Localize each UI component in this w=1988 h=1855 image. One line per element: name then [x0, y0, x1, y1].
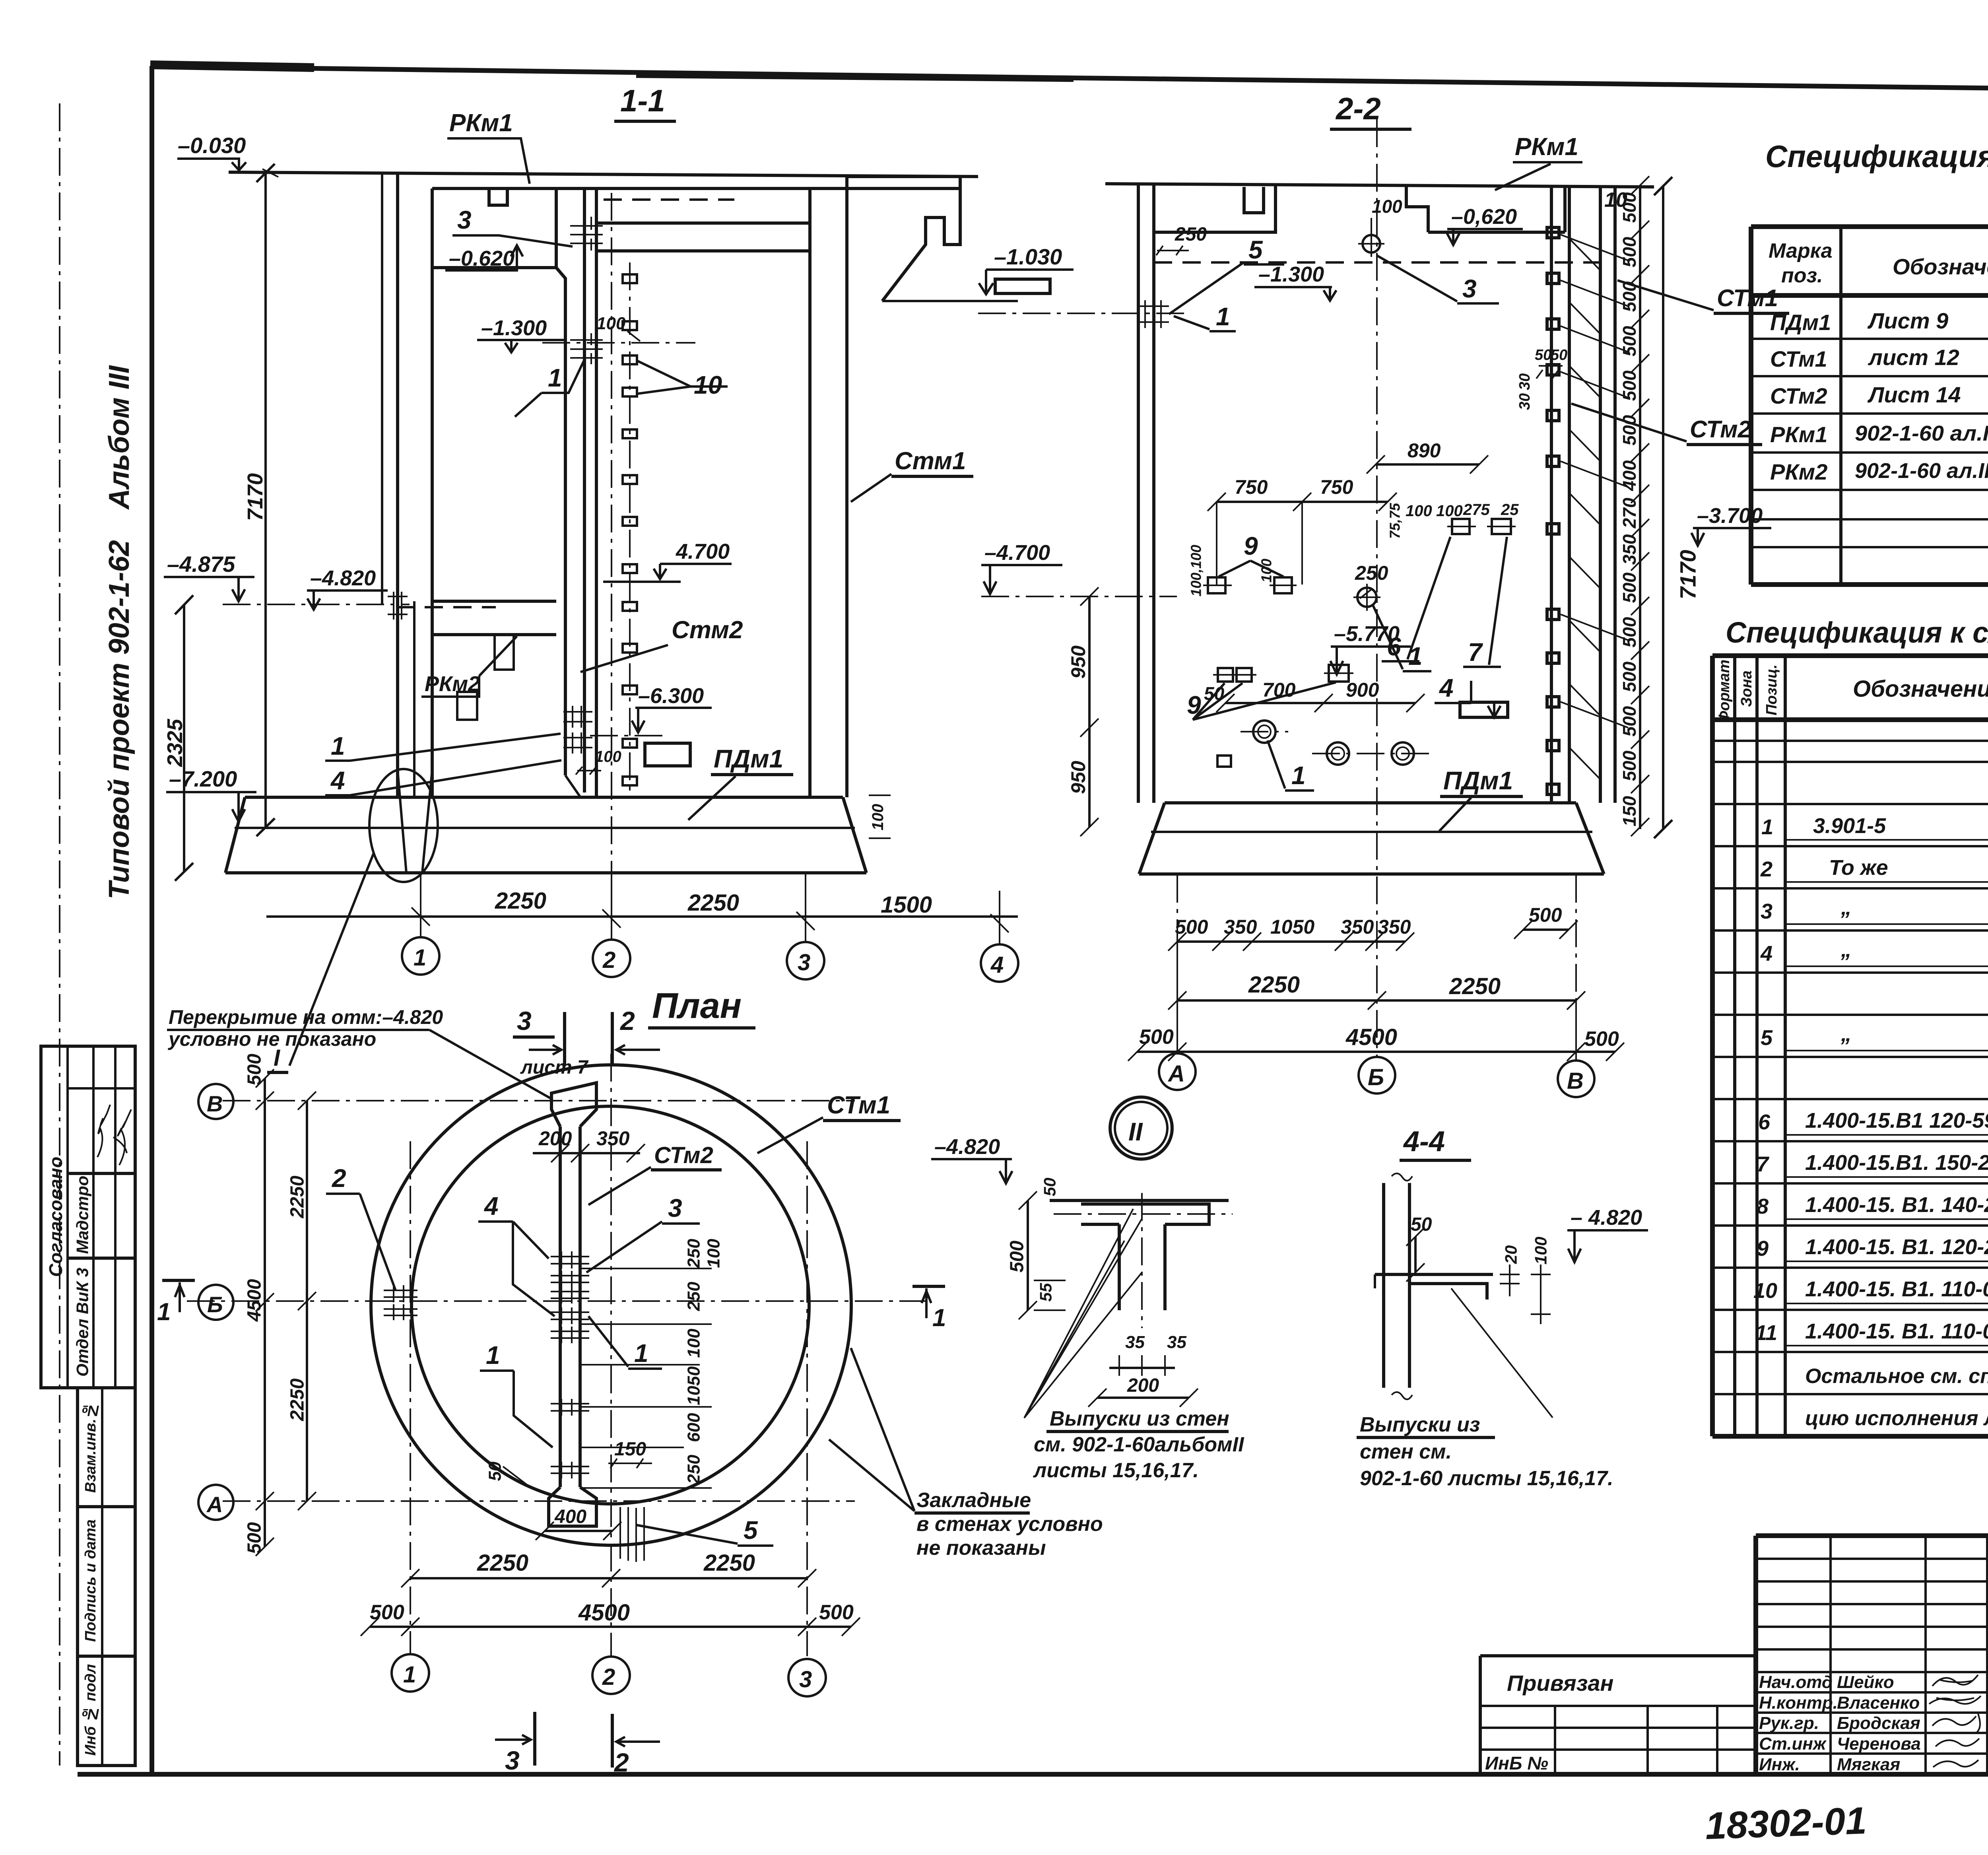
svg-text:5: 5 — [744, 1516, 758, 1544]
axis circle V — [1558, 1061, 1594, 1097]
svg-text:902-1-60 листы 15,16,17.: 902-1-60 листы 15,16,17. — [1360, 1467, 1613, 1490]
axis circle 4 — [981, 944, 1018, 982]
svg-text:1: 1 — [1291, 761, 1306, 790]
svg-text:11: 11 — [1755, 1321, 1777, 1345]
svg-text:350: 350 — [1378, 916, 1411, 938]
svg-text:1500: 1500 — [881, 892, 932, 918]
svg-text:–1.300: –1.300 — [481, 316, 547, 340]
svg-text:Шейко: Шейко — [1837, 1672, 1894, 1692]
stepped leader 4 — [513, 1222, 555, 1316]
svg-text:Марка: Марка — [1769, 239, 1833, 262]
svg-text:2250: 2250 — [495, 888, 546, 914]
outer wall circle — [371, 1065, 851, 1545]
svg-text:Привязан: Привязан — [1507, 1670, 1613, 1696]
embedded plates mid — [1452, 519, 1470, 534]
svg-text:150: 150 — [614, 1439, 646, 1460]
svg-text:Выпуски из стен: Выпуски из стен — [1050, 1407, 1229, 1430]
T ledge top line — [1050, 1199, 1229, 1202]
svg-text:1.400-15.В1. 150-29: 1.400-15.В1. 150-29 — [1805, 1151, 1988, 1175]
dim column labels 500 — [1619, 192, 1640, 826]
embed ticks top of centre wall — [570, 226, 603, 243]
svg-text:100: 100 — [1406, 502, 1432, 520]
axis circle A plan — [198, 1485, 233, 1520]
axis stubs — [421, 873, 1000, 944]
svg-text:20: 20 — [1502, 1245, 1520, 1265]
table grid — [1751, 227, 1988, 585]
svg-text:–4.820: –4.820 — [310, 566, 376, 590]
knife edge detail circle — [369, 769, 438, 882]
svg-text:1: 1 — [331, 732, 345, 760]
circle-cross mid — [1357, 588, 1376, 607]
svg-text:50: 50 — [1411, 1214, 1432, 1235]
svg-text:Типовой проект 902-1-62: Типовой проект 902-1-62 — [103, 540, 135, 899]
axis dash-dot left — [978, 313, 1187, 314]
svg-text:500: 500 — [1619, 661, 1640, 692]
svg-text:2: 2 — [613, 1748, 629, 1777]
svg-text:Обозначение: Обозначение — [1893, 254, 1988, 279]
svg-text:„: „ — [1840, 895, 1852, 919]
svg-text:2-2: 2-2 — [1335, 91, 1381, 126]
privyazan table — [1480, 1656, 1756, 1774]
excavation edge — [381, 172, 383, 604]
svg-text:не показаны: не показаны — [916, 1536, 1046, 1560]
centre wall strip — [560, 1127, 580, 1487]
inner wall stm2 cut — [1551, 187, 1569, 803]
left dim chains plan — [265, 1078, 307, 1547]
svg-text:цию исполнения листы 12,14: цию исполнения листы 12,14 — [1805, 1407, 1988, 1430]
svg-text:Б: Б — [207, 1292, 223, 1317]
svg-text:2325: 2325 — [163, 719, 187, 767]
svg-text:1: 1 — [932, 1304, 946, 1332]
svg-text:Отдел ВиК 3: Отдел ВиК 3 — [73, 1268, 92, 1377]
svg-text:РКм2: РКм2 — [1770, 459, 1827, 484]
bottom dim chain 1 — [1177, 940, 1405, 943]
svg-text:Стм2: Стм2 — [672, 616, 743, 644]
svg-text:3: 3 — [799, 1667, 812, 1692]
svg-text:500: 500 — [1619, 370, 1640, 401]
svg-text:270: 270 — [1619, 497, 1640, 528]
svg-text:План: План — [652, 986, 742, 1026]
svg-text:лист 12: лист 12 — [1868, 345, 1959, 370]
svg-text:В: В — [207, 1091, 223, 1116]
axis dash-dot verticals — [1177, 119, 1576, 1061]
svg-text:4: 4 — [1760, 942, 1773, 965]
svg-text:–0.620: –0.620 — [449, 247, 514, 270]
svg-text:–4.875: –4.875 — [167, 552, 235, 577]
axis circle B plan — [198, 1285, 233, 1320]
svg-text:250: 250 — [1355, 562, 1388, 584]
right wall — [810, 177, 847, 797]
bottom slab 2-2 — [1139, 803, 1604, 874]
svg-text:Формат: Формат — [1716, 660, 1733, 723]
axis stubs 2-2 — [1177, 942, 1576, 1061]
hatch band between walls — [1569, 239, 1600, 779]
svg-text:100: 100 — [595, 748, 621, 765]
svg-text:см. 902-1-60альбомII: см. 902-1-60альбомII — [1034, 1433, 1244, 1456]
svg-text:А: А — [1167, 1061, 1185, 1087]
svg-text:9: 9 — [1757, 1237, 1769, 1261]
sheet frame bottom edge — [78, 1772, 1988, 1777]
svg-text:9: 9 — [1244, 532, 1258, 560]
svg-text:500: 500 — [819, 1601, 854, 1624]
outer dash-dot trim line — [59, 103, 60, 1766]
svg-text:50: 50 — [1535, 347, 1551, 363]
svg-text:4: 4 — [330, 766, 345, 795]
svg-text:РКм1: РКм1 — [1515, 133, 1578, 161]
svg-text:Обозначение: Обозначение — [1853, 676, 1988, 702]
svg-text:500: 500 — [1139, 1026, 1174, 1049]
leader fan — [1024, 1209, 1142, 1418]
svg-text:4-4: 4-4 — [1403, 1126, 1445, 1158]
svg-text:75,75: 75,75 — [1387, 503, 1403, 539]
svg-text:500: 500 — [1619, 750, 1640, 781]
svg-text:2: 2 — [332, 1164, 346, 1193]
embed on left wall at B axis — [384, 1290, 417, 1315]
svg-text:Выпуски из: Выпуски из — [1360, 1413, 1480, 1436]
svg-text:Закладные: Закладные — [916, 1489, 1031, 1512]
svg-text:950: 950 — [1067, 645, 1089, 679]
svg-text:А: А — [206, 1492, 223, 1517]
svg-text:7170: 7170 — [1675, 550, 1701, 600]
svg-text:50: 50 — [485, 1461, 505, 1481]
svg-text:1: 1 — [486, 1341, 500, 1369]
svg-text:500: 500 — [1619, 326, 1640, 356]
axis B horizontal — [223, 1100, 855, 1101]
embed cross on outer wall — [388, 592, 408, 620]
svg-text:500: 500 — [244, 1054, 265, 1086]
beam end rectangle — [995, 279, 1050, 293]
bottom dim chain 2 — [1177, 999, 1576, 1002]
svg-text:– 4.820: – 4.820 — [1571, 1206, 1642, 1230]
inner wall circle — [412, 1106, 809, 1504]
axis circle 3 plan — [788, 1659, 826, 1696]
shelf — [1375, 1274, 1493, 1299]
svg-text:400: 400 — [554, 1506, 586, 1527]
svg-text:3: 3 — [517, 1006, 532, 1035]
svg-text:В: В — [1567, 1068, 1584, 1094]
svg-text:II: II — [1128, 1117, 1143, 1146]
sheet frame top edge overdraw — [150, 65, 314, 68]
svg-text:Черенова: Черенова — [1837, 1734, 1921, 1754]
svg-text:Н.контр.: Н.контр. — [1759, 1693, 1838, 1713]
svg-text:8: 8 — [1757, 1195, 1769, 1218]
svg-text:1: 1 — [403, 1662, 416, 1688]
small embed — [1217, 756, 1231, 767]
svg-text:Мягкая: Мягкая — [1837, 1755, 1900, 1774]
svg-text:18302-01: 18302-01 — [1705, 1799, 1867, 1847]
axis circle B2 — [1359, 1057, 1395, 1094]
signature squiggles — [97, 1105, 110, 1157]
bottom dim chain plan 1 — [410, 1577, 807, 1579]
svg-text:СТм2: СТм2 — [1690, 416, 1751, 443]
svg-text:350: 350 — [1224, 916, 1257, 938]
svg-text:6: 6 — [1758, 1110, 1771, 1134]
svg-text:2250: 2250 — [687, 890, 739, 916]
bottom dim chain plan 2 — [370, 1626, 851, 1628]
svg-text:Инб № подл: Инб № подл — [82, 1664, 99, 1756]
rkm2 rib box — [457, 692, 477, 720]
svg-text:500: 500 — [1619, 706, 1640, 736]
section mark 1 right — [912, 1285, 945, 1288]
svg-text:7170: 7170 — [243, 473, 267, 521]
svg-text:500: 500 — [1175, 916, 1208, 938]
axis circle V plan — [198, 1084, 233, 1119]
svg-text:100: 100 — [684, 1329, 704, 1358]
svg-text:1050: 1050 — [684, 1366, 704, 1405]
lower embeds on centre wall — [563, 712, 592, 748]
svg-text:Лист 9: Лист 9 — [1867, 308, 1948, 333]
embed squares on inner wall 2-2 — [1547, 227, 1559, 794]
svg-text:10: 10 — [694, 371, 722, 399]
svg-text:условно не показано: условно не показано — [167, 1028, 376, 1050]
wall strip — [1384, 1183, 1409, 1388]
salnik circles bottom — [1253, 721, 1276, 743]
svg-text:600: 600 — [684, 1413, 704, 1442]
svg-text:–1.030: –1.030 — [994, 244, 1062, 269]
svg-text:Зона: Зона — [1738, 670, 1755, 707]
right outer wall 2-2 — [1600, 187, 1615, 803]
svg-text:–7.200: –7.200 — [169, 766, 237, 791]
svg-text:2250: 2250 — [1248, 972, 1300, 998]
axis circle 3 — [787, 942, 824, 979]
svg-text:500: 500 — [1529, 904, 1562, 926]
dim 2325 — [175, 595, 193, 881]
svg-text:1: 1 — [157, 1298, 171, 1326]
signoff grid — [1756, 1536, 1988, 1774]
svg-text:100: 100 — [1532, 1237, 1550, 1265]
axis circle 1 plan — [392, 1654, 429, 1692]
svg-text:1.400-15. В1. 110-02: 1.400-15. В1. 110-02 — [1805, 1277, 1988, 1301]
svg-text:1: 1 — [548, 363, 562, 392]
hatched outlet below — [620, 1507, 644, 1562]
svg-text:ИнБ №: ИнБ № — [1485, 1753, 1548, 1773]
svg-text:25: 25 — [1501, 501, 1519, 519]
intermediate floor slab -4.820 — [432, 601, 556, 635]
svg-text:3: 3 — [1761, 899, 1773, 923]
svg-text:Перекрытие на отм:–4.820: Перекрытие на отм:–4.820 — [169, 1006, 443, 1028]
lower embed plates row — [1218, 668, 1233, 682]
svg-text:поз.: поз. — [1781, 264, 1823, 287]
embeds on centre wall plan — [551, 1251, 589, 1478]
svg-text:Нач.отд: Нач.отд — [1759, 1672, 1833, 1692]
leaders from embeds to chain — [1561, 235, 1628, 728]
svg-text:30: 30 — [1516, 373, 1533, 390]
dim 750 750 — [1217, 501, 1388, 503]
svg-text:Взам.инв.№: Взам.инв.№ — [82, 1402, 99, 1493]
svg-text:Ст.инж: Ст.инж — [1759, 1734, 1827, 1754]
svg-text:250: 250 — [684, 1455, 704, 1484]
svg-text:–1.300: –1.300 — [1258, 262, 1324, 286]
svg-text:1: 1 — [1216, 302, 1230, 331]
svg-text:„: „ — [1840, 938, 1852, 961]
svg-text:Спецификация к схеме расположе: Спецификация к схеме расположения стен С… — [1726, 616, 1988, 649]
svg-text:500: 500 — [1619, 237, 1640, 267]
svg-text:750: 750 — [1320, 476, 1353, 498]
svg-text:4.700: 4.700 — [676, 540, 730, 563]
T stem — [1119, 1224, 1165, 1310]
centreline stem — [1141, 1193, 1143, 1328]
svg-text:3: 3 — [457, 206, 472, 234]
wall top funnel — [551, 1083, 596, 1127]
svg-text:Бродская: Бродская — [1837, 1713, 1920, 1733]
svg-text:Мадстро: Мадстро — [73, 1176, 92, 1254]
svg-text:Остальное см. специфика-: Остальное см. специфика- — [1805, 1365, 1988, 1388]
svg-text:стен см.: стен см. — [1360, 1440, 1452, 1463]
svg-text:3.901-5: 3.901-5 — [1813, 814, 1886, 838]
svg-text:350: 350 — [1341, 916, 1374, 938]
svg-text:250: 250 — [684, 1282, 704, 1311]
svg-text:Согласовано: Согласовано — [45, 1157, 66, 1277]
roof cantilever bracket — [847, 177, 960, 301]
svg-text:350: 350 — [596, 1127, 630, 1150]
sheet frame top edge — [150, 66, 1988, 94]
svg-text:2250: 2250 — [703, 1550, 755, 1576]
svg-text:250: 250 — [684, 1239, 704, 1268]
svg-text:900: 900 — [1346, 679, 1379, 701]
roof soffit line — [432, 187, 960, 190]
dim 950 x2 — [1088, 596, 1091, 827]
svg-text:950: 950 — [1067, 761, 1089, 794]
circle-cross on axis — [1363, 235, 1380, 253]
signatures column — [1932, 1675, 1978, 1686]
svg-text:5: 5 — [1248, 235, 1263, 264]
axis circle 2 plan — [592, 1657, 630, 1694]
left wall — [398, 172, 432, 797]
svg-text:7: 7 — [1468, 638, 1483, 666]
svg-text:СТм2: СТм2 — [654, 1142, 713, 1168]
axis A horizontal — [223, 1500, 855, 1502]
axis circle A — [1159, 1053, 1196, 1090]
svg-text:750: 750 — [1235, 476, 1268, 498]
svg-text:РКм1: РКм1 — [1770, 422, 1827, 447]
svg-text:Позиц.: Позиц. — [1763, 664, 1780, 715]
svg-text:400: 400 — [1619, 460, 1640, 491]
svg-text:1.400-15.В1 120-59: 1.400-15.В1 120-59 — [1805, 1109, 1988, 1132]
svg-text:4: 4 — [1439, 674, 1454, 702]
svg-text:500: 500 — [244, 1522, 265, 1554]
svg-text:ПДм1: ПДм1 — [1443, 766, 1513, 795]
right chamber ceiling — [596, 223, 810, 251]
svg-text:200: 200 — [1127, 1375, 1159, 1396]
svg-text:1.400-15. В1. 110-04: 1.400-15. В1. 110-04 — [1805, 1319, 1988, 1343]
svg-text:2250: 2250 — [1449, 973, 1501, 999]
svg-text:500: 500 — [1619, 572, 1640, 603]
svg-text:–4.700: –4.700 — [984, 541, 1050, 565]
axis vertical 1 — [410, 1141, 411, 1654]
svg-text:Власенко: Власенко — [1837, 1693, 1920, 1713]
dim 7170 — [256, 164, 275, 836]
svg-text:Б: Б — [1368, 1064, 1384, 1090]
svg-text:100: 100 — [1436, 502, 1463, 520]
svg-text:7: 7 — [1757, 1152, 1770, 1176]
svg-text:2250: 2250 — [477, 1550, 528, 1576]
section mark 3 bottom — [533, 1712, 536, 1766]
detail circle II — [1110, 1097, 1172, 1159]
svg-text:3: 3 — [798, 950, 810, 975]
svg-text:–4.820: –4.820 — [934, 1135, 1000, 1159]
T flange — [1081, 1204, 1209, 1224]
hidden dashed -1.300 — [1154, 261, 1600, 264]
svg-text:1: 1 — [414, 945, 426, 971]
outlet box right — [1460, 702, 1508, 717]
svg-text:Лист 14: Лист 14 — [1867, 382, 1961, 407]
svg-text:2: 2 — [1760, 857, 1773, 881]
svg-text:2: 2 — [602, 1664, 615, 1690]
svg-text:ПДм1: ПДм1 — [714, 744, 783, 773]
svg-text:СТм2: СТм2 — [1770, 383, 1827, 408]
svg-text:СТм1: СТм1 — [1717, 285, 1778, 311]
svg-text:35: 35 — [1125, 1332, 1145, 1352]
svg-text:4500: 4500 — [244, 1279, 265, 1322]
svg-text:35: 35 — [1167, 1332, 1186, 1352]
svg-text:902-1-60 ал.II лист 4: 902-1-60 ал.II лист 4 — [1855, 422, 1988, 445]
sidebar stamp table lower group — [78, 1388, 135, 1766]
svg-text:30: 30 — [1516, 393, 1533, 410]
svg-text:10: 10 — [1753, 1279, 1777, 1303]
svg-text:2250: 2250 — [287, 1175, 308, 1218]
axis circle 2 — [593, 940, 630, 977]
svg-text:листы 15,16,17.: листы 15,16,17. — [1033, 1459, 1199, 1482]
right dim chain plan — [580, 1268, 712, 1488]
svg-text:500: 500 — [1619, 617, 1640, 647]
svg-text:Рук.гр.: Рук.гр. — [1759, 1713, 1819, 1733]
svg-text:1: 1 — [634, 1339, 648, 1367]
bottom slab PDm1 — [225, 797, 866, 873]
axes dim line — [266, 915, 1018, 918]
embedded plates at -4.7 — [1208, 577, 1225, 593]
svg-text:100: 100 — [704, 1239, 724, 1268]
svg-text:1-1: 1-1 — [620, 83, 665, 118]
axis vertical 2 — [610, 1054, 612, 1656]
sidebar stamp table upper group — [41, 1046, 135, 1388]
svg-text:Альбом III: Альбом III — [103, 365, 135, 510]
leader 4-4 — [1451, 1288, 1553, 1418]
svg-text:Инж.: Инж. — [1759, 1755, 1800, 1774]
svg-text:2250: 2250 — [287, 1378, 308, 1421]
hidden edge dashes — [604, 198, 734, 201]
embed plate column pos.10 — [629, 262, 631, 793]
svg-text:50: 50 — [1041, 1178, 1059, 1197]
ground line — [229, 172, 978, 177]
svg-text:в стенах условно: в стенах условно — [916, 1513, 1103, 1536]
svg-text:250: 250 — [1175, 224, 1207, 245]
svg-text:–5.770: –5.770 — [1334, 622, 1400, 646]
svg-text:500: 500 — [1584, 1028, 1619, 1051]
svg-text:Подпись и дата: Подпись и дата — [82, 1519, 99, 1642]
svg-text:3: 3 — [668, 1194, 682, 1222]
svg-text:890: 890 — [1408, 439, 1441, 462]
svg-text:3: 3 — [1462, 274, 1477, 303]
axis vertical 3 — [806, 1141, 808, 1656]
tank centreline 1-1 — [611, 193, 612, 938]
top slab line — [1105, 184, 1654, 187]
sump box — [645, 743, 690, 766]
svg-text:1.400-15. В1. 120-23: 1.400-15. В1. 120-23 — [1805, 1235, 1988, 1259]
svg-text:–6.300: –6.300 — [638, 684, 704, 708]
left roof rib block — [432, 188, 556, 268]
left wall 2-2 — [1138, 184, 1154, 803]
centre wall — [556, 188, 596, 797]
svg-text:350: 350 — [1619, 534, 1640, 565]
dim 7170 right — [1654, 177, 1672, 838]
svg-text:5: 5 — [1761, 1026, 1773, 1050]
axis B2 horizontal — [187, 1300, 926, 1302]
svg-text:100,100: 100,100 — [1188, 545, 1204, 596]
sheet frame left edge — [149, 66, 154, 1774]
rib notch — [489, 188, 507, 205]
wall bottom shoe — [549, 1487, 596, 1526]
axis circle 1 — [402, 937, 439, 975]
